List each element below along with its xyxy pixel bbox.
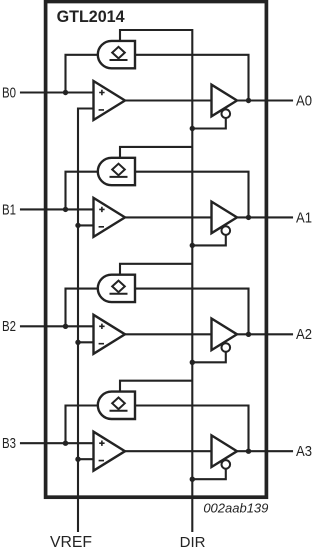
svg-text:B0: B0 <box>2 84 16 101</box>
svg-text:B2: B2 <box>2 318 16 335</box>
svg-text:A1: A1 <box>296 209 312 226</box>
svg-text:VREF: VREF <box>50 534 92 548</box>
svg-text:B1: B1 <box>2 201 16 218</box>
svg-text:GTL2014: GTL2014 <box>57 8 126 26</box>
svg-text:B3: B3 <box>2 435 16 452</box>
svg-text:DIR: DIR <box>180 534 206 548</box>
svg-text:002aab139: 002aab139 <box>203 501 268 516</box>
svg-text:A2: A2 <box>296 326 312 343</box>
svg-text:A0: A0 <box>296 92 312 109</box>
svg-text:A3: A3 <box>296 443 312 460</box>
